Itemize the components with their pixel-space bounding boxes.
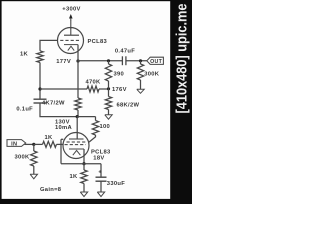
wire plate lead bottom [76,117,78,139]
svg-text:1K: 1K [44,135,53,141]
node input [32,143,35,146]
wire IN to node [25,143,34,145]
capacitor C1 0.1uF [16,99,46,112]
svg-text:+: + [98,170,102,176]
ground 300K out [137,89,144,93]
tube U1a grid [60,39,79,41]
ground 68K [105,115,112,119]
resistor R3 300K in [14,144,37,174]
border top [0,0,192,1]
tube U1b plate [69,138,84,140]
ground 330uF [97,192,104,197]
svg-text:4K7/2W: 4K7/2W [42,100,65,106]
svg-text:0.47uF: 0.47uF [115,49,135,55]
ground 1K cathode [80,192,87,197]
wire 470K to node [99,88,109,90]
svg-text:PCL83: PCL83 [88,39,108,45]
wire plate rail right [77,116,95,118]
node bottom plate [76,115,79,118]
tube U1b envelope [63,133,89,159]
wire R4 to plate node [77,110,79,117]
ground input [30,174,37,179]
svg-text:390: 390 [114,71,125,77]
node 390 top [107,59,110,62]
resistor R10 1K cathode [69,164,87,192]
svg-text:0.1uF: 0.1uF [16,107,33,113]
wire C2 to OUT [126,60,147,62]
svg-text:OUT: OUT [150,59,163,65]
resistor R2 1K stopper [34,135,64,147]
label Gain=8 [40,187,62,193]
flag OUT [147,57,164,65]
svg-text:300K: 300K [14,155,30,161]
svg-text:68K/2W: 68K/2W [117,103,140,109]
svg-text:177V: 177V [56,59,71,65]
resistor R6 390 [105,61,124,89]
wire C1 to plate rail [40,103,77,117]
node OUT [139,59,142,62]
tube U1a envelope [58,28,84,54]
svg-text:176V: 176V [112,87,127,93]
tube U1a plate [64,29,79,36]
node top cathode [76,59,79,62]
resistor R4 4K7/2W [42,98,81,110]
tube U1a heater [68,46,74,50]
tube U1b screen g2 [67,141,86,143]
wire bottom cathode [83,149,85,164]
svg-text:[410x480] upic.me: [410x480] upic.me [173,4,190,114]
watermark bar [170,0,192,204]
wire R1 to C1 [39,63,41,100]
power +300V label [62,7,80,13]
svg-text:+300V: +300V [62,7,80,13]
resistor R5 470K [85,80,101,93]
node bottom cathode [82,162,85,165]
wire plate supply [70,20,72,30]
svg-text:330uF: 330uF [107,181,125,187]
wire grid to R1 [40,40,58,50]
node 176V [107,87,127,93]
resistor R9 100 [89,117,110,143]
svg-text:1K: 1K [20,52,29,58]
power arrow +300V [69,14,73,21]
label PCL83 top [88,39,108,45]
node grid-divider [38,87,41,90]
flag IN [7,140,26,148]
wire divider rail [40,88,87,90]
wire cathode rail [61,163,101,165]
svg-text:18V: 18V [93,156,104,162]
svg-text:100: 100 [100,124,111,130]
label 10mA [55,125,73,131]
label PCL83 bottom [91,150,111,156]
tube U1b cathode [69,148,84,150]
wire top cathode [77,45,79,98]
label 177V [56,59,71,65]
svg-text:1K: 1K [69,174,78,180]
svg-text:IN: IN [11,141,17,147]
label 130V [55,120,70,126]
tube U1b heater [73,150,81,155]
resistor R7 300K out [137,61,159,90]
resistor R1 1K grid [20,51,43,63]
border left [0,0,2,204]
tube U1b grid g1 [65,144,86,146]
wire output rail [78,60,122,62]
resistor R8 68K/2W [105,89,139,115]
capacitor C2 0.47uF [115,49,135,65]
label 18V [93,156,104,162]
svg-text:300K: 300K [144,71,160,77]
capacitor C3 330uF [96,164,126,192]
tube U1a cathode [64,44,78,46]
wire g3 strap [61,139,63,163]
svg-text:Gain=8: Gain=8 [40,187,62,193]
border bottom [0,199,192,204]
svg-text:10mA: 10mA [55,125,73,131]
svg-text:470K: 470K [85,80,101,86]
